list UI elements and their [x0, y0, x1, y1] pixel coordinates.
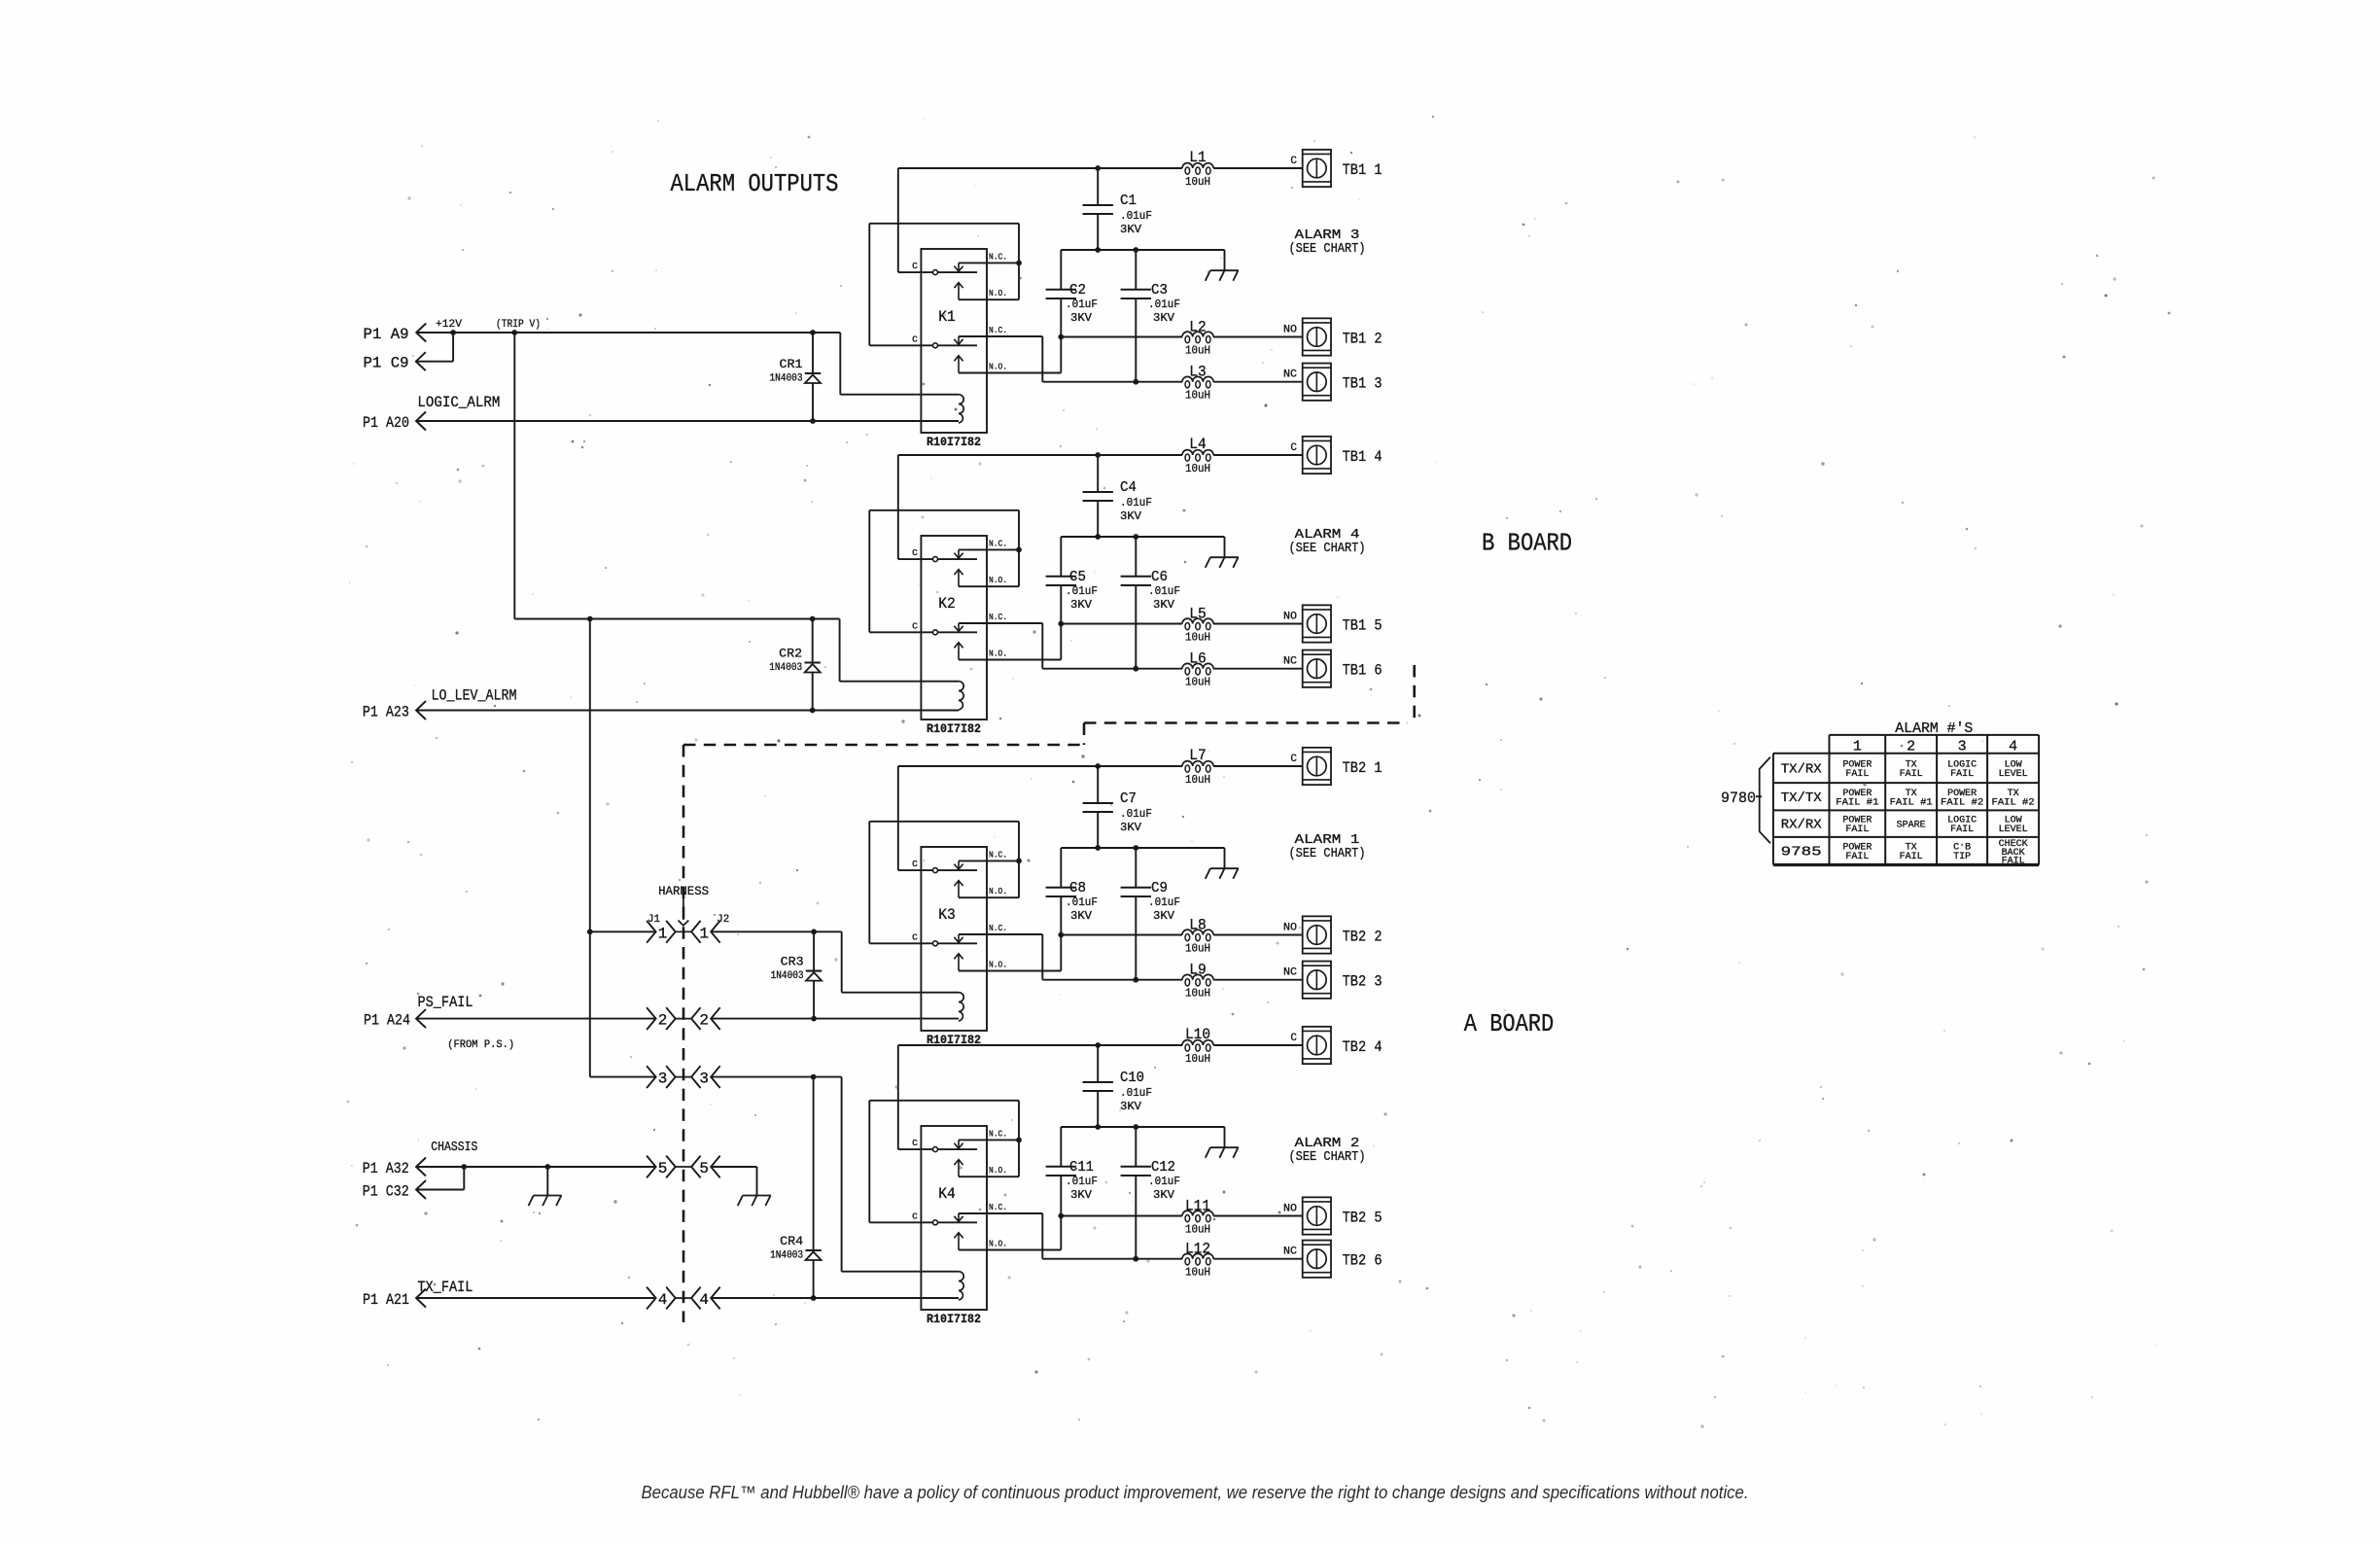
- svg-text:C: C: [912, 1138, 918, 1148]
- svg-text:NC: NC: [1283, 656, 1297, 668]
- svg-text:C3: C3: [1151, 282, 1168, 298]
- svg-text:N.C.: N.C.: [989, 251, 1007, 262]
- svg-text:.01uF: .01uF: [1066, 895, 1098, 909]
- svg-text:C: C: [912, 931, 918, 942]
- svg-text:J2: J2: [717, 914, 729, 926]
- svg-text:C7: C7: [1120, 790, 1137, 807]
- svg-text:1N4003: 1N4003: [771, 970, 804, 982]
- svg-text:.01uF: .01uF: [1120, 496, 1152, 509]
- svg-text:C11: C11: [1069, 1159, 1094, 1176]
- svg-text:J1: J1: [647, 914, 660, 926]
- svg-text:C5: C5: [1069, 569, 1086, 585]
- svg-text:.01uF: .01uF: [1148, 1175, 1180, 1188]
- svg-text:L12: L12: [1185, 1241, 1210, 1258]
- svg-text:2: 2: [699, 1012, 709, 1030]
- svg-text:C8: C8: [1069, 880, 1086, 896]
- svg-text:C10: C10: [1120, 1070, 1144, 1086]
- svg-text:1N4003: 1N4003: [770, 1250, 803, 1262]
- svg-text:HARNESS: HARNESS: [658, 884, 709, 898]
- svg-text:10uH: 10uH: [1185, 1224, 1210, 1237]
- svg-text:SPARE: SPARE: [1897, 821, 1926, 831]
- svg-text:C: C: [912, 1211, 918, 1221]
- svg-text:N.C.: N.C.: [989, 849, 1007, 860]
- svg-text:C: C: [1290, 156, 1297, 167]
- svg-text:CR3: CR3: [781, 955, 804, 969]
- svg-text:10uH: 10uH: [1185, 774, 1210, 787]
- svg-text:L9: L9: [1189, 962, 1207, 979]
- svg-text:3KV: 3KV: [1070, 598, 1093, 612]
- svg-text:N.O.: N.O.: [989, 575, 1007, 585]
- svg-text:CHASSIS: CHASSIS: [431, 1140, 477, 1155]
- svg-text:FAIL #1: FAIL #1: [1836, 797, 1878, 808]
- svg-text:PS_FAIL: PS_FAIL: [418, 994, 473, 1011]
- svg-text:3KV: 3KV: [1153, 909, 1175, 923]
- svg-text:L3: L3: [1189, 364, 1207, 381]
- svg-text:10uH: 10uH: [1185, 632, 1210, 645]
- svg-text:N.C.: N.C.: [989, 923, 1007, 933]
- svg-text:C: C: [912, 620, 918, 631]
- svg-text:C: C: [912, 261, 918, 271]
- svg-text:.01uF: .01uF: [1120, 209, 1152, 223]
- svg-text:TB2 6: TB2 6: [1343, 1252, 1382, 1270]
- svg-text:FAIL: FAIL: [1845, 825, 1869, 835]
- svg-text:P1 C32: P1 C32: [363, 1182, 409, 1200]
- svg-text:C2: C2: [1069, 282, 1086, 298]
- svg-text:TB1 5: TB1 5: [1343, 616, 1382, 634]
- svg-text:N.C.: N.C.: [989, 538, 1007, 548]
- svg-text:10uH: 10uH: [1185, 176, 1210, 189]
- svg-text:10uH: 10uH: [1185, 463, 1210, 475]
- svg-text:C6: C6: [1151, 569, 1168, 585]
- svg-text:P1 C9: P1 C9: [364, 355, 409, 372]
- svg-text:L6: L6: [1189, 650, 1207, 668]
- svg-text:FAIL: FAIL: [1845, 852, 1869, 862]
- svg-text:4: 4: [2009, 738, 2017, 755]
- svg-text:.01uF: .01uF: [1148, 895, 1180, 909]
- svg-text:C: C: [912, 334, 918, 344]
- svg-text:4: 4: [699, 1291, 709, 1309]
- svg-text:TX/TX: TX/TX: [1781, 790, 1823, 806]
- svg-text:3KV: 3KV: [1153, 311, 1175, 325]
- svg-text:N.O.: N.O.: [989, 649, 1007, 659]
- svg-text:TB2 5: TB2 5: [1343, 1209, 1382, 1226]
- svg-text:P1 A20: P1 A20: [363, 414, 409, 432]
- svg-text:.01uF: .01uF: [1148, 584, 1180, 598]
- svg-text:LEVEL: LEVEL: [1999, 825, 2028, 835]
- svg-text:9785: 9785: [1781, 845, 1822, 860]
- svg-text:N.O.: N.O.: [989, 1239, 1007, 1249]
- svg-text:.01uF: .01uF: [1148, 298, 1180, 311]
- svg-text:NO: NO: [1283, 923, 1297, 934]
- svg-text:10uH: 10uH: [1185, 988, 1210, 1001]
- svg-text:P1 A32: P1 A32: [363, 1160, 409, 1177]
- svg-text:C: C: [1290, 754, 1297, 765]
- svg-text:3KV: 3KV: [1070, 1188, 1093, 1202]
- svg-text:TB2 3: TB2 3: [1343, 973, 1382, 991]
- svg-text:3: 3: [699, 1071, 709, 1088]
- svg-text:C: C: [912, 547, 918, 558]
- svg-text:9780: 9780: [1721, 790, 1756, 807]
- svg-text:C12: C12: [1151, 1159, 1175, 1176]
- svg-text:FAIL: FAIL: [1900, 852, 1923, 862]
- svg-text:NC: NC: [1283, 1247, 1297, 1258]
- svg-text:N.O.: N.O.: [989, 960, 1007, 970]
- svg-text:3: 3: [658, 1071, 668, 1088]
- svg-text:C: C: [1290, 1033, 1297, 1044]
- svg-text:TIP: TIP: [1953, 852, 1971, 862]
- svg-text:(FROM P.S.): (FROM P.S.): [447, 1039, 514, 1051]
- svg-text:N.C.: N.C.: [989, 1128, 1007, 1139]
- svg-text:3KV: 3KV: [1070, 909, 1093, 923]
- svg-text:10uH: 10uH: [1185, 1267, 1210, 1280]
- svg-text:.01uF: .01uF: [1066, 584, 1098, 598]
- svg-text:3KV: 3KV: [1153, 598, 1175, 612]
- svg-text:3KV: 3KV: [1120, 509, 1142, 523]
- svg-text:L8: L8: [1189, 917, 1207, 934]
- svg-text:FAIL: FAIL: [1900, 769, 1923, 780]
- svg-text:FAIL: FAIL: [1950, 769, 1974, 780]
- svg-text:L11: L11: [1185, 1198, 1210, 1215]
- svg-text:C9: C9: [1151, 880, 1168, 896]
- svg-text:10uH: 10uH: [1185, 677, 1210, 689]
- svg-text:ALARM OUTPUTS: ALARM OUTPUTS: [671, 169, 839, 198]
- svg-text:K3: K3: [938, 906, 956, 924]
- svg-text:NO: NO: [1283, 612, 1297, 623]
- svg-text:L4: L4: [1189, 436, 1207, 453]
- svg-text:10uH: 10uH: [1185, 345, 1210, 358]
- svg-text:.01uF: .01uF: [1120, 807, 1152, 821]
- svg-text:R10I7I82: R10I7I82: [927, 721, 981, 736]
- svg-text:R10I7I82: R10I7I82: [927, 435, 981, 449]
- svg-text:TB2 1: TB2 1: [1343, 759, 1382, 777]
- svg-text:N.O.: N.O.: [989, 362, 1007, 372]
- svg-text:N.O.: N.O.: [989, 288, 1007, 298]
- svg-text:3KV: 3KV: [1120, 821, 1142, 834]
- svg-text:FAIL #1: FAIL #1: [1890, 797, 1933, 808]
- svg-text:B BOARD: B BOARD: [1482, 529, 1572, 558]
- svg-text:FAIL #2: FAIL #2: [1941, 797, 1983, 808]
- svg-text:5: 5: [699, 1160, 709, 1177]
- svg-text:N.O.: N.O.: [989, 1165, 1007, 1176]
- svg-text:3KV: 3KV: [1153, 1188, 1175, 1202]
- svg-text:4: 4: [658, 1291, 668, 1309]
- svg-text:Because RFL™ and Hubbell® have: Because RFL™ and Hubbell® have a policy …: [642, 1483, 1749, 1502]
- svg-text:P1 A23: P1 A23: [363, 703, 409, 720]
- svg-text:N.C.: N.C.: [989, 325, 1007, 335]
- svg-text:(TRIP V): (TRIP V): [496, 319, 541, 331]
- svg-text:C: C: [912, 859, 918, 869]
- svg-text:K2: K2: [938, 595, 956, 613]
- svg-text:(SEE CHART): (SEE CHART): [1289, 846, 1366, 861]
- svg-text:K1: K1: [938, 308, 956, 326]
- svg-text:N.O.: N.O.: [989, 886, 1007, 896]
- svg-text:1N4003: 1N4003: [770, 373, 803, 385]
- svg-text:LO_LEV_ALRM: LO_LEV_ALRM: [432, 687, 517, 705]
- svg-text:L1: L1: [1189, 149, 1207, 166]
- svg-text:TB1 3: TB1 3: [1343, 375, 1382, 393]
- svg-text:TB2 2: TB2 2: [1343, 928, 1382, 945]
- svg-text:NO: NO: [1283, 1204, 1297, 1215]
- svg-text:R10I7I82: R10I7I82: [927, 1312, 981, 1326]
- svg-text:LOGIC_ALRM: LOGIC_ALRM: [417, 394, 500, 411]
- svg-text:1N4003: 1N4003: [769, 662, 802, 674]
- svg-text:K4: K4: [938, 1185, 956, 1203]
- svg-text:3KV: 3KV: [1070, 311, 1093, 325]
- svg-text:1: 1: [1853, 738, 1862, 755]
- svg-text:CR4: CR4: [780, 1234, 803, 1248]
- svg-text:NO: NO: [1283, 325, 1297, 336]
- svg-text:.01uF: .01uF: [1066, 1175, 1098, 1188]
- svg-text:L2: L2: [1189, 319, 1207, 336]
- svg-text:L5: L5: [1189, 606, 1207, 623]
- svg-text:CR1: CR1: [780, 357, 803, 371]
- svg-text:1: 1: [658, 925, 668, 942]
- svg-text:P1 A24: P1 A24: [364, 1011, 410, 1029]
- svg-text:TX/RX: TX/RX: [1781, 761, 1823, 777]
- svg-text:P1 A21: P1 A21: [363, 1291, 409, 1309]
- svg-text:TB1 2: TB1 2: [1343, 330, 1382, 347]
- svg-text:10uH: 10uH: [1185, 943, 1210, 956]
- svg-text:TB1 6: TB1 6: [1343, 662, 1382, 680]
- svg-text:TB1 1: TB1 1: [1343, 161, 1382, 179]
- svg-text:(SEE CHART): (SEE CHART): [1289, 241, 1366, 257]
- svg-text:2: 2: [658, 1012, 668, 1030]
- svg-text:3: 3: [1958, 738, 1967, 755]
- svg-text:FAIL: FAIL: [1845, 769, 1869, 780]
- svg-text:L10: L10: [1185, 1026, 1210, 1043]
- svg-text:10uH: 10uH: [1185, 1053, 1210, 1066]
- svg-text:C4: C4: [1120, 479, 1137, 496]
- svg-text:C1: C1: [1120, 193, 1137, 209]
- svg-text:L7: L7: [1189, 747, 1207, 764]
- svg-text:TB1 4: TB1 4: [1343, 448, 1382, 466]
- svg-text:LEVEL: LEVEL: [1999, 769, 2028, 780]
- svg-text:2: 2: [1907, 738, 1915, 755]
- svg-text:FAIL #2: FAIL #2: [1992, 797, 2035, 808]
- svg-text:C: C: [1290, 442, 1297, 454]
- svg-text:10uH: 10uH: [1185, 390, 1210, 403]
- svg-text:(SEE CHART): (SEE CHART): [1289, 1149, 1366, 1165]
- svg-text:RX/RX: RX/RX: [1781, 818, 1823, 833]
- svg-text:P1 A9: P1 A9: [364, 326, 409, 343]
- svg-text:ALARM #'S: ALARM #'S: [1895, 720, 1973, 737]
- svg-text:.01uF: .01uF: [1120, 1086, 1152, 1100]
- svg-text:.01uF: .01uF: [1066, 298, 1098, 311]
- svg-text:1: 1: [699, 925, 709, 942]
- svg-text:TB2 4: TB2 4: [1343, 1038, 1382, 1056]
- svg-text:CR2: CR2: [779, 647, 802, 661]
- svg-text:FAIL: FAIL: [2002, 856, 2025, 866]
- svg-text:+12V: +12V: [436, 319, 462, 331]
- svg-text:NC: NC: [1283, 369, 1297, 381]
- svg-text:A BOARD: A BOARD: [1464, 1009, 1554, 1038]
- svg-text:5: 5: [658, 1160, 668, 1177]
- svg-text:N.C.: N.C.: [989, 1202, 1007, 1212]
- svg-text:FAIL: FAIL: [1950, 825, 1974, 835]
- svg-text:TX_FAIL: TX_FAIL: [417, 1279, 472, 1296]
- svg-text:N.C.: N.C.: [989, 612, 1007, 622]
- svg-text:(SEE CHART): (SEE CHART): [1289, 541, 1366, 556]
- svg-text:3KV: 3KV: [1120, 223, 1142, 236]
- svg-text:3KV: 3KV: [1120, 1100, 1142, 1113]
- svg-text:NC: NC: [1283, 967, 1297, 979]
